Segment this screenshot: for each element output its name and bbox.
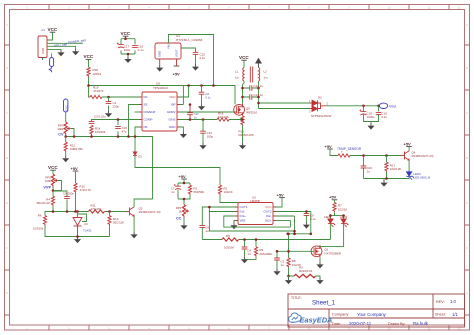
ground (R3 right) [316,278,323,285]
node C19 [377,105,380,108]
svg-text:TL431: TL431 [83,228,92,232]
transistor Q1 [311,245,341,257]
resistor R13 [108,216,124,226]
ground (Q1) [316,262,323,269]
capacitor C18 [359,109,375,119]
svg-text:Sheet:: Sheet: [435,313,446,317]
wire pin4 [47,49,61,51]
wire U5 GND [180,127,184,131]
wire R4 to base rail [53,206,89,212]
node ISNS C11 [189,118,192,121]
net port Vout [379,103,396,108]
wire RP1 bottom [183,218,185,223]
svg-text:474/47k: 474/47k [93,89,104,93]
wire GDRV to Q5 gate [180,111,237,113]
wire LED1 down [329,224,331,240]
svg-text:CV: CV [58,132,64,136]
ground (temp) [380,180,387,187]
capacitor C6 [63,192,74,199]
capacitor C17 [117,42,131,52]
node R5 C4 [243,238,246,241]
svg-text:1m: 1m [264,76,269,80]
wire LED2 down [320,224,344,247]
resistor R17 [385,162,402,172]
node bottom U3 [76,235,79,238]
wire Q1 source [319,257,321,262]
svg-text:E: E [6,201,8,205]
op-amp U4 regulator [155,34,203,59]
wire C12 stubs [243,87,259,89]
svg-text:Drawn By:: Drawn By: [388,322,406,326]
svg-text:CV1: CV1 [64,105,68,111]
node C17 bottom [127,53,130,56]
wire R6 top [45,212,53,216]
wire C2 gnd [276,260,278,268]
wire R7 to LEDs [330,212,343,219]
wire C14 [202,120,204,143]
wire U2 VCC [276,198,283,207]
svg-text:LED-0603_B: LED-0603_B [414,176,431,180]
node RP2 bottom [52,189,55,192]
LED LED2 [340,215,348,227]
LED LED1 [324,215,335,227]
net flag VCC (RP2) [48,165,58,170]
node C13 right [257,96,260,99]
svg-text:L2: L2 [264,70,268,74]
resistor R5 [222,234,239,249]
svg-text:D2: D2 [318,96,322,100]
capacitor C2 [274,258,284,267]
net flag +5V (U2) [277,192,285,197]
ground (Q2) [131,232,138,239]
wire bottom rail [45,226,110,237]
wire D2 anode bottom [259,108,310,110]
svg-text:R005/0.005: R005/0.005 [239,133,254,137]
wire R3 right [316,276,320,278]
node RP3 wiper [73,135,76,138]
resistor R2 [218,185,232,195]
ground (C14) [199,143,206,150]
node +5V [183,182,186,185]
node VDD rail [187,84,190,87]
transistor Q5 [234,104,258,116]
svg-text:IN1+: IN1+ [240,214,247,218]
node R3 left [287,275,290,278]
svg-text:+5V: +5V [404,141,412,146]
resistor R15 [239,116,254,137]
net flag VCC (C17) [121,31,131,36]
svg-text:R010/0.01: R010/0.01 [299,269,313,273]
svg-text:C: C [466,111,468,115]
svg-text:Your Company: Your Company [357,312,387,317]
wire SS vertical [129,105,140,137]
wire IN1- loop [209,207,294,231]
ground (RP1) [180,223,187,230]
svg-text:100/1k: 100/1k [93,72,102,76]
wire L1 bottom to Q5 [243,81,245,104]
potentiometer RP1 [176,205,189,221]
wire FB [135,127,140,152]
wire R17 [386,156,388,163]
svg-text:R5: R5 [226,234,230,238]
node BP [189,103,192,106]
svg-text:563/56K: 563/56K [194,190,205,194]
node mesh U3 [76,210,79,213]
wire C18 C19 [364,106,379,123]
wire VCC to L1 [243,60,245,67]
wire R8 to R3 [289,268,295,276]
svg-text:LED2: LED2 [340,215,348,219]
node OUT2 drop [310,233,313,236]
LED LED3 [407,172,414,180]
net flag VCC (R18) [84,54,94,59]
resistor R18 [87,67,102,77]
wire IN1+ loop [224,216,291,227]
svg-text:100u: 100u [124,48,131,52]
svg-text:STPS30L45CW: STPS30L45CW [311,114,332,118]
ground (U5) [180,131,187,138]
wire VDD rail [180,86,236,105]
svg-text:36C/23.2K: 36C/23.2K [36,201,50,205]
wire RP3 bottom [65,135,66,137]
net flag VCC (connector) [48,27,58,32]
svg-text:L1: L1 [235,70,239,74]
svg-text:ISNS: ISNS [168,118,175,122]
resistor R11 [89,203,105,213]
wire R18 to R19 [89,77,91,97]
svg-text:NX7002BKR: NX7002BKR [325,252,341,256]
svg-text:VEE: VEE [240,219,246,223]
svg-text:GND: GND [158,51,162,57]
ground (R12) [62,156,69,163]
capacitor C7 [171,184,181,194]
svg-text:VCC: VCC [265,205,272,209]
svg-text:C6 100n: C6 100n [63,192,74,196]
wire VCC to RP2 [52,170,54,174]
svg-text:102/1K: 102/1K [338,207,347,211]
svg-text:m1: m1 [41,28,45,32]
wire VCC filter caps [121,36,135,56]
svg-text:GND: GND [169,125,177,129]
wire C1 [108,97,110,111]
svg-text:0.1u: 0.1u [138,48,144,52]
ground (C4) [241,257,248,264]
svg-text:1u: 1u [194,116,198,120]
connector P1 [38,36,47,58]
svg-text:1m: 1m [235,76,240,80]
EasyEDA logo [289,313,333,325]
svg-text:D: D [466,156,468,160]
wire D1 to R2 [135,155,220,185]
node R15 ISNS [241,118,244,121]
wire RP3 wiper loop [71,129,74,137]
node LED tee [329,214,332,217]
svg-text:47p: 47p [122,130,127,134]
net port (shield) [43,58,54,73]
svg-text:2020-07-11: 2020-07-11 [349,321,372,326]
wire R19 to U5 RC [102,96,140,98]
ground (C8) [198,104,205,111]
svg-text:B: B [466,66,468,70]
svg-text:1u: 1u [367,169,371,173]
svg-text:IRF5210: IRF5210 [246,110,257,114]
net flag +5V (C7 R1 R2) [179,174,187,179]
wire COMP network [92,120,140,137]
ground (R15) [239,143,246,150]
node IN2+ drop [286,233,289,236]
svg-text:1.0: 1.0 [450,299,456,304]
svg-text:VDD: VDD [169,95,176,99]
svg-text:TPS40210: TPS40210 [153,86,168,90]
capacitor C20 [361,166,373,174]
wire U4 VIN to VDD rail [169,35,214,86]
frame ticks top [49,5,449,10]
svg-text:+5V: +5V [329,195,337,200]
wire R12 [65,137,67,143]
wire CV port to RP3 [65,112,67,122]
wire +5V to RT [330,149,338,156]
svg-text:1u: 1u [281,263,285,267]
svg-text:VCC: VCC [84,54,94,59]
wire IN2 vertical joins [276,216,295,234]
node C12 left [241,87,244,90]
node RP1 [183,198,186,201]
wire connector bottom [43,53,52,60]
svg-text:2N3904(SOT-23): 2N3904(SOT-23) [139,210,161,214]
wire ISNS row [180,118,242,120]
svg-text:TITLE:: TITLE: [291,296,302,300]
svg-text:IN1-: IN1- [240,210,246,214]
wire DIS/EN stub [135,111,140,113]
net port CV [64,99,69,112]
capacitor C19 [376,111,388,119]
wire IN2+ row [276,220,291,222]
capacitor C13 [250,93,263,100]
svg-text:1u: 1u [247,252,251,256]
wire C6 branch [53,191,67,212]
svg-text:VVP: VVP [43,185,51,189]
wire temp bottom rail [364,172,387,180]
ground (U4) [156,65,163,72]
svg-text:1u: 1u [171,190,175,194]
wire Q2 emitter [133,216,135,232]
svg-text:C3 0.22u: C3 0.22u [94,115,106,119]
wire R11 to Q2 base [105,211,126,213]
net flag +5V (temp sensor) [325,144,333,149]
wire BP cap C11 [189,105,191,120]
node C13 left [241,96,244,99]
net flag +5V (Q4) [404,141,412,146]
inductor L1 [243,68,244,82]
capacitor C16 [132,44,144,52]
svg-text:IN2+: IN2+ [265,219,272,223]
svg-text:220p: 220p [113,104,120,108]
svg-text:HT7150-1_C19066: HT7150-1_C19066 [176,38,203,42]
svg-text:+5V: +5V [71,166,79,171]
svg-text:103/10k: 103/10k [33,227,44,231]
svg-text:OUT2: OUT2 [263,210,271,214]
svg-text:VCC: VCC [239,55,249,60]
resistor R19 [90,86,104,99]
wire R9 bottom [245,257,257,260]
node D2 top [257,102,260,105]
svg-text:+5V: +5V [173,72,181,77]
resistor R7 [333,202,347,212]
wire +5V to R7 [334,200,336,203]
svg-text:100k: 100k [45,179,52,183]
capacitor C9 [304,213,316,221]
ground (C1) [105,111,112,118]
resistor R1 [188,185,204,195]
node C18 [362,105,365,108]
svg-text:DIS/EN#: DIS/EN# [144,110,156,114]
diode D1 [133,152,142,159]
title block [288,294,465,327]
node ISNS C14 [202,118,205,121]
svg-text:1000u: 1000u [367,115,375,119]
frame ticks left [5,45,10,315]
svg-text:CC: CC [176,217,182,221]
ground (C17 C16) [124,56,131,63]
ground (U3) [74,237,81,244]
svg-text:Company:: Company: [332,313,349,317]
svg-text:1/1: 1/1 [452,312,458,317]
wire VDD rail left [89,85,184,87]
node R17 [385,154,388,157]
svg-text:05C/11K: 05C/11K [113,221,124,225]
svg-text:103/10K: 103/10K [218,115,229,119]
wire Q2 collector [134,199,152,207]
capacitor C10 [115,126,127,134]
wire Q1 drain [319,245,321,246]
svg-text:31B/2.05k: 31B/2.05k [70,147,84,151]
wire C13 stubs [243,96,259,98]
resistor R12 [64,142,83,152]
svg-text:+5V: +5V [325,144,333,149]
ground (U2 VEE) [230,223,237,230]
svg-text:OUT1: OUT1 [240,205,248,209]
resistor R10 [74,183,91,193]
ground (pin4) [57,50,64,57]
resistor R14 [90,125,106,135]
svg-text:R6: R6 [38,213,42,217]
node mesh R10 [74,210,77,213]
capacitor C11 [187,112,199,120]
wire Q1 gate [277,234,314,258]
wire R10 to mesh [75,193,77,212]
svg-text:Sheet_1: Sheet_1 [312,300,336,307]
node rail SS [127,135,130,138]
svg-text:20A/200K: 20A/200K [259,252,272,256]
inductor L2 [259,68,260,82]
node OUT1 branch [208,206,211,209]
ground (C9) [303,222,310,229]
svg-text:103/10k: 103/10k [95,130,106,134]
svg-text:VCC: VCC [121,31,131,36]
resistor R16 [217,111,229,121]
svg-text:473/47K: 473/47K [91,207,102,211]
node R13 top [108,210,111,213]
wire R13 [109,212,111,216]
svg-text:EasyEDA: EasyEDA [300,316,333,325]
potentiometer RP3 [57,122,70,136]
node RP3 [64,135,67,138]
wire +5V row [178,179,238,203]
node rail R14 [90,135,93,138]
wire L2 bottom [258,81,260,108]
wire pin2 POWER_pad [47,42,83,44]
wire C15 branch [181,48,196,64]
svg-text:BP: BP [171,103,175,107]
svg-text:D1: D1 [138,154,142,158]
wire R5 row [202,240,330,257]
svg-text:B: B [6,66,8,70]
wire C20 [363,156,365,179]
capacitor C8 [199,92,212,100]
wire VCC to R18 [88,59,90,67]
svg-text:A: A [466,23,468,27]
svg-text:SS: SS [144,103,148,107]
svg-text:REV:: REV: [436,300,445,304]
wire U4 VOUT [176,59,178,66]
svg-text:FB: FB [144,125,148,129]
wire U2 VEE ground [234,221,236,223]
resistor R3 [294,266,316,278]
transistor Q2 [125,206,161,216]
wire U4 GND [159,59,161,65]
svg-text:1u: 1u [205,229,209,233]
resistor R6 [33,213,47,230]
svg-text:102/1K: 102/1K [224,190,233,194]
wire R15 to ground [242,126,244,143]
resistor R8 [287,258,301,268]
svg-text:+5V: +5V [179,174,187,179]
node C2 gate [276,250,279,253]
net flag +5V (R7) [329,195,337,200]
svg-text:G: G [466,291,468,295]
node IN2- end [293,233,296,236]
svg-text:A: A [6,23,8,27]
wire C9 [305,212,307,223]
diode D2 [310,100,326,111]
wire D2 anode top [259,102,310,104]
node R6 R4 [52,210,55,213]
wire D2 to Vout [326,105,379,107]
wire +5V to R10 [75,171,77,183]
wire OUT2 long [276,212,311,234]
node C12 right [257,87,260,90]
ground (pin3) [72,49,79,56]
wire RP1 top [183,199,185,205]
svg-text:223/2.2K: 223/2.2K [390,167,402,171]
svg-text:0.1u: 0.1u [205,95,211,99]
wire RT to Q4 base [350,155,401,157]
wire pin3 [47,46,76,48]
node C17 top [124,37,127,40]
svg-text:VCC: VCC [48,27,58,32]
wire VCC to pin1 [47,32,53,40]
node R18 rail [87,84,90,87]
wire FB bottom rail [65,137,153,200]
wire OUT1 loop [202,207,235,240]
svg-text:USB: USB [41,48,45,54]
node rail C10 [117,135,120,138]
svg-text:Date:: Date: [332,322,341,326]
svg-text:100p: 100p [207,135,214,139]
frame ticks bottom [49,326,449,331]
svg-text:E: E [466,201,468,205]
svg-text:COMP: COMP [144,118,153,122]
